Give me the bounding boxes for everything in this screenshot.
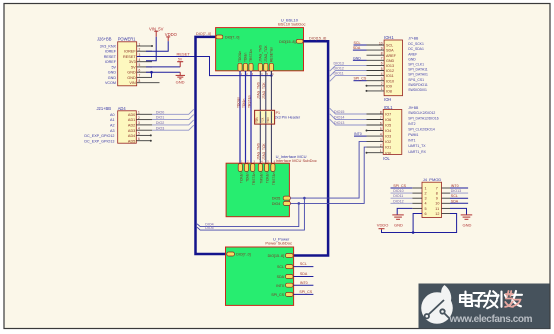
BSL10 right pin DIO[15..8]: [279, 39, 303, 44]
svg-text:6: 6: [381, 62, 383, 66]
svg-text:GND: GND: [176, 80, 185, 85]
ground symbol near POWER1: [176, 72, 185, 79]
svg-text:SDA: SDA: [353, 46, 361, 50]
svg-text:RESET&n: RESET&n: [270, 47, 274, 62]
svg-text:A1: A1: [110, 118, 115, 122]
svg-text:3: 3: [380, 138, 382, 142]
watermark elecfans: [419, 284, 550, 329]
svg-text:GND: GND: [353, 56, 361, 60]
connector J7 IOH: [384, 35, 419, 102]
svg-text:AD3: AD3: [128, 129, 135, 133]
svg-text:TRST&n: TRST&n: [247, 95, 251, 108]
svg-text:DIO12: DIO12: [334, 67, 344, 71]
junction rail pin6: [412, 231, 415, 234]
POWER1 pin names: [123, 50, 136, 86]
svg-text:GND: GND: [127, 76, 136, 80]
svg-text:2: 2: [380, 143, 382, 147]
svg-text:DIO14: DIO14: [334, 116, 344, 120]
power flag VDDO: [165, 32, 178, 41]
svg-text:DIO11: DIO11: [334, 72, 344, 76]
POWER1 pin stubs: [137, 45, 160, 83]
svg-text:DIO15: DIO15: [334, 110, 344, 114]
watermark red accent glyph part: [505, 291, 521, 307]
net labels DIO13 DIO12 DIO11: [334, 61, 344, 75]
ground symbol PMOD right: [461, 215, 473, 219]
wire VDDO to pin row IOREF: [146, 41, 168, 51]
svg-text:DIO[7..0]: DIO[7..0]: [236, 253, 250, 257]
svg-text:POWER1: POWER1: [118, 37, 136, 42]
svg-text:DIO[7..0]: DIO[7..0]: [225, 36, 239, 40]
svg-text:2: 2: [138, 116, 140, 120]
header P1 pin marks: [253, 117, 270, 123]
header P1 2x3 Pin Header: [255, 110, 301, 124]
svg-text:SPI_CLK1: SPI_CLK1: [408, 63, 424, 67]
svg-text:TCK: TCK: [261, 117, 265, 122]
svg-text:DIO4: DIO4: [272, 202, 280, 206]
svg-text:DIO3: DIO3: [156, 126, 164, 130]
svg-text:IO0: IO0: [385, 151, 391, 155]
svg-text:TDO: TDO: [266, 117, 270, 122]
svg-text:TRST&n: TRST&n: [249, 49, 253, 62]
svg-text:SCL: SCL: [451, 194, 458, 198]
bus DIO[7..0] left: [196, 37, 228, 254]
wire RESET long run: [137, 57, 272, 76]
svg-text:10: 10: [379, 41, 383, 45]
IOL right net labels: [408, 111, 439, 154]
svg-text:AD5: AD5: [128, 139, 135, 143]
Power right pin SDA: [277, 272, 314, 279]
junction DIO4: [298, 202, 301, 205]
svg-text:IO13: IO13: [386, 64, 394, 68]
svg-text:JTAG_TCK: JTAG_TCK: [262, 82, 266, 99]
AD4 left net labels: [84, 113, 114, 143]
svg-text:GND: GND: [386, 59, 395, 63]
svg-text:DC_SDA1: DC_SDA1: [408, 47, 424, 51]
wire SPI_CS PMOD: [391, 184, 413, 188]
svg-text:AD4: AD4: [118, 106, 127, 111]
svg-text:J21+BB: J21+BB: [97, 106, 112, 111]
svg-text:IOREF: IOREF: [124, 50, 136, 54]
junction GND rows: [150, 71, 153, 74]
svg-text:TCK&n: TCK&n: [266, 172, 270, 183]
svg-text:IO7: IO7: [385, 113, 391, 117]
svg-text:TRST&n: TRST&n: [272, 172, 276, 185]
svg-text:J26+BB: J26+BB: [97, 37, 112, 42]
wire DIO11 PMOD: [391, 194, 413, 198]
svg-text:GND: GND: [394, 222, 403, 227]
ground symbol PMOD left: [392, 215, 404, 219]
net labels TDO TDI TRST rotated: [236, 95, 251, 108]
wire DIO5 MCU to IOL: [290, 142, 366, 199]
net labels JTAG_TMS JTAG_TCK rotated upper: [257, 81, 267, 99]
svg-text:SDA: SDA: [300, 272, 308, 276]
svg-text:SDA: SDA: [277, 275, 285, 279]
net labels DIO0-DIO3: [156, 110, 164, 130]
svg-text:TDO&n: TDO&n: [238, 51, 242, 62]
svg-text:AD0: AD0: [128, 113, 135, 117]
wire SDA PMOD: [450, 199, 468, 203]
svg-text:SCL: SCL: [386, 44, 393, 48]
svg-text:IOREF: IOREF: [105, 50, 117, 54]
svg-text:IO12: IO12: [386, 69, 394, 73]
svg-text:DIO5: DIO5: [205, 226, 213, 230]
svg-text:4: 4: [381, 72, 383, 76]
svg-text:SPI_CS: SPI_CS: [354, 77, 367, 81]
svg-text:5: 5: [381, 67, 383, 71]
wire SCL PMOD: [450, 194, 468, 198]
fa: [484, 291, 499, 308]
bus DIO[15..8] right: [294, 41, 329, 255]
svg-text:GND: GND: [463, 222, 472, 227]
svg-text:4: 4: [380, 132, 382, 136]
svg-text:AREF: AREF: [408, 52, 417, 56]
svg-text:IO4: IO4: [385, 129, 391, 133]
AD4 pin stubs: [136, 114, 152, 140]
svg-text:INT0: INT0: [276, 284, 284, 288]
svg-text:SWDIODI01: SWDIODI01: [408, 88, 427, 92]
svg-text:3: 3: [425, 197, 427, 201]
svg-text:2x3 Pin Header: 2x3 Pin Header: [275, 115, 301, 119]
svg-text:5: 5: [139, 63, 141, 67]
svg-text:A2: A2: [110, 124, 115, 128]
svg-text:DC_SCK1: DC_SCK1: [408, 42, 424, 46]
svg-text:IO3: IO3: [385, 135, 391, 139]
svg-text:5: 5: [425, 207, 427, 211]
dian: [460, 292, 472, 307]
svg-text:11: 11: [435, 207, 439, 211]
svg-text:1: 1: [138, 111, 140, 115]
svg-text:SPI1_CS1: SPI1_CS1: [408, 78, 424, 82]
svg-text:3: 3: [138, 121, 140, 125]
wire DIO10 PMOD: [391, 189, 413, 193]
svg-text:DC_EXP_GPIO13: DC_EXP_GPIO13: [84, 139, 114, 143]
svg-text:SPI_CLK2/DIO14: SPI_CLK2/DIO14: [408, 128, 435, 132]
wire pin6 to rail: [413, 214, 422, 233]
svg-text:SPI_DATA01: SPI_DATA01: [408, 73, 428, 77]
AD4 pin numbers: [138, 111, 140, 141]
svg-text:DIO0: DIO0: [156, 110, 164, 114]
Power left pin DIO[7..0]: [227, 252, 251, 257]
svg-text:DIO[15..8]: DIO[15..8]: [279, 40, 295, 44]
svg-text:JTAG_TMS: JTAG_TMS: [259, 44, 263, 62]
svg-text:DIO13: DIO13: [451, 189, 461, 193]
wire INT0 stub IOL: [354, 132, 367, 136]
svg-text:IO10: IO10: [386, 79, 394, 83]
svg-text:AD2: AD2: [128, 124, 135, 128]
svg-text:9: 9: [381, 46, 383, 50]
svg-text:5V: 5V: [111, 65, 116, 69]
svg-text:UART1_TX: UART1_TX: [408, 144, 426, 148]
svg-text:7: 7: [381, 57, 383, 61]
wire SPI_CS stub IOH: [354, 77, 367, 81]
svg-text:P1: P1: [276, 111, 280, 115]
wire DIO4 tee to bus: [197, 203, 299, 226]
svg-text:SPI_DATA12/DIO16: SPI_DATA12/DIO16: [408, 117, 439, 121]
Power right pin SPI_CS: [271, 290, 313, 297]
connector J26 POWER1: [97, 37, 137, 86]
svg-text:UART1_RX: UART1_RX: [408, 150, 426, 154]
svg-text:TDI&n: TDI&n: [246, 172, 250, 182]
POWER1 left net labels: [100, 44, 117, 85]
svg-text:3V3_KNX: 3V3_KNX: [100, 44, 117, 48]
sheet symbol U_Power: [226, 237, 294, 306]
svg-text:4: 4: [425, 202, 427, 206]
svg-text:SPI_CS: SPI_CS: [271, 293, 284, 297]
connector J9 IOL: [383, 105, 419, 161]
svg-text:TCK&n: TCK&n: [239, 172, 243, 183]
svg-text:7: 7: [380, 116, 382, 120]
svg-text:TMS&n: TMS&n: [260, 172, 264, 183]
svg-text:JTAG_TMS: JTAG_TMS: [257, 142, 261, 160]
MCU right pins DIO5 DIO4: [272, 196, 290, 206]
svg-text:VDDO: VDDO: [377, 222, 389, 227]
svg-text:PWM1: PWM1: [408, 133, 418, 137]
svg-text:SDA: SDA: [386, 49, 394, 53]
wire VIN_5V to pin row 3V3: [146, 37, 156, 61]
svg-text:DIO11: DIO11: [393, 194, 403, 198]
svg-text:INT0: INT0: [354, 132, 362, 136]
svg-text:JTAG_TCK: JTAG_TCK: [264, 45, 268, 62]
wire DIO12 PMOD: [391, 199, 413, 203]
svg-text:GND: GND: [108, 76, 117, 80]
wire SCL stub IOH: [354, 41, 367, 45]
svg-text:1: 1: [139, 42, 141, 46]
svg-text:TDO&n: TDO&n: [236, 97, 240, 108]
power flag VIN_5V: [149, 26, 164, 36]
svg-text:J9+BB: J9+BB: [408, 106, 419, 110]
svg-text:123: 123: [253, 118, 257, 123]
svg-text:IO11: IO11: [386, 74, 394, 78]
svg-text:2: 2: [139, 48, 141, 52]
svg-text:TRST&n: TRST&n: [252, 172, 256, 185]
watermark chinese glyphs drawn as strokes: [460, 291, 522, 308]
IOH pin names: [386, 44, 397, 94]
svg-text:IO8: IO8: [386, 90, 392, 94]
power flag VDDO PMOD: [377, 222, 389, 230]
svg-text:2: 2: [381, 82, 383, 86]
svg-text:TDI&n: TDI&n: [244, 52, 248, 62]
connector J21 AD4: [97, 106, 137, 143]
svg-text:12: 12: [435, 212, 439, 216]
svg-text:DIO13: DIO13: [334, 121, 344, 125]
IOH pin numbers: [379, 41, 383, 91]
svg-text:IO2: IO2: [385, 140, 391, 144]
svg-text:DIO1: DIO1: [156, 116, 164, 120]
svg-text:BSL10 SubDoc: BSL10 SubDoc: [278, 21, 305, 26]
svg-text:IO1: IO1: [385, 146, 391, 150]
sheet symbol U_Interface MCU: [226, 154, 317, 217]
svg-text:SCL: SCL: [300, 262, 307, 266]
svg-text:5V: 5V: [178, 58, 183, 62]
wire pin5 to ground: [397, 208, 412, 215]
svg-text:IO9: IO9: [386, 84, 392, 88]
svg-text:DIO13: DIO13: [334, 61, 344, 65]
svg-text:6: 6: [139, 69, 141, 73]
PMOD pin numbers: [425, 186, 440, 216]
svg-text:A3: A3: [110, 129, 115, 133]
svg-text:IO6: IO6: [385, 118, 391, 122]
svg-text:GND: GND: [408, 57, 416, 61]
svg-text:2: 2: [425, 192, 427, 196]
svg-text:5V: 5V: [131, 65, 136, 69]
wire DIO5 tee to bus: [197, 198, 304, 230]
svg-text:INT2: INT2: [408, 122, 415, 126]
svg-text:www.elecfans.com: www.elecfans.com: [449, 314, 533, 325]
wire 5V row with power flag: [146, 58, 183, 67]
svg-text:GND: GND: [108, 71, 117, 75]
net labels JTAG_TMS JTAG_TCK rotated lower: [257, 142, 267, 160]
svg-text:RESET: RESET: [123, 55, 136, 59]
svg-text:1: 1: [380, 149, 382, 153]
svg-text:DC_EXP_GPIO12: DC_EXP_GPIO12: [84, 134, 114, 138]
svg-text:VCOM: VCOM: [105, 81, 116, 85]
IOH pin stubs: [367, 45, 385, 91]
svg-text:6: 6: [380, 121, 382, 125]
wire INT0 PMOD: [450, 184, 468, 188]
svg-text:VIN: VIN: [129, 81, 136, 85]
svg-text:INT1: INT1: [408, 139, 415, 143]
svg-text:VDDO: VDDO: [165, 32, 178, 37]
power rail VDDO bottom: [382, 214, 457, 233]
svg-text:TDI&n: TDI&n: [242, 98, 246, 108]
wires AD0-AD3 to bus: [152, 109, 194, 130]
svg-text:INT0: INT0: [451, 184, 459, 188]
svg-text:Interface MCU SubDoc: Interface MCU SubDoc: [276, 158, 317, 163]
svg-text:SDA: SDA: [451, 199, 459, 203]
svg-text:9: 9: [436, 197, 438, 201]
svg-text:1: 1: [425, 186, 427, 190]
wire pin11 to ground: [450, 208, 467, 215]
svg-text:4: 4: [139, 58, 141, 62]
net labels DIO15 DIO14 DIO13: [334, 110, 344, 125]
svg-text:SWDFDIO11: SWDFDIO11: [408, 83, 428, 87]
svg-text:6: 6: [138, 137, 140, 141]
svg-text:DIO5: DIO5: [272, 197, 280, 201]
BSL10 bottom pin numbers: [241, 73, 274, 76]
header P1 pass-through pins: [260, 111, 271, 123]
svg-text:DIO[15..8]: DIO[15..8]: [309, 37, 326, 41]
wire GND stub IOH: [353, 56, 367, 60]
Power right pin SCL: [277, 262, 313, 269]
PMOD left stubs: [412, 188, 422, 214]
svg-text:DIO[7..0]: DIO[7..0]: [196, 32, 211, 36]
svg-text:A0: A0: [110, 113, 115, 117]
svg-text:Power SubDoc: Power SubDoc: [265, 241, 292, 246]
svg-text:7: 7: [436, 186, 438, 190]
svg-text:IOH: IOH: [384, 97, 391, 102]
svg-text:7: 7: [139, 74, 141, 78]
svg-text:8: 8: [139, 79, 141, 83]
IOL pin stubs: [367, 114, 384, 153]
svg-text:DIO2: DIO2: [156, 121, 164, 125]
wires DIO13 DIO12 DIO11 to bus: [330, 65, 367, 81]
Power right pin INT0: [276, 281, 313, 288]
BSL10 left pin DIO[7..0]: [216, 35, 239, 40]
svg-text:10: 10: [435, 202, 439, 206]
svg-text:3: 3: [381, 77, 383, 81]
svg-text:SPI_DATA11: SPI_DATA11: [408, 68, 428, 72]
svg-text:4: 4: [138, 127, 140, 131]
svg-text:PMOD: PMOD: [429, 177, 441, 182]
zi: [473, 293, 487, 307]
svg-text:DIO[15..8]: DIO[15..8]: [268, 254, 284, 258]
connector J4 PMOD: [422, 177, 442, 217]
IOH right net labels: [408, 42, 428, 92]
wires DIO15 DIO14 DIO13 to bus: [330, 108, 367, 125]
svg-text:IO5: IO5: [385, 124, 391, 128]
svg-text:J7+BB: J7+BB: [408, 37, 419, 41]
AD4 pin names: [128, 113, 135, 143]
svg-text:IOREF: IOREF: [105, 60, 117, 64]
svg-text:SCL: SCL: [354, 41, 361, 45]
svg-text:5: 5: [138, 132, 140, 136]
svg-text:6: 6: [425, 212, 427, 216]
svg-text:8: 8: [436, 192, 438, 196]
svg-text:DIO12: DIO12: [393, 199, 403, 203]
svg-text:SPI_CS: SPI_CS: [299, 290, 312, 294]
svg-text:8: 8: [381, 52, 383, 56]
svg-text:SWDCLK2/DIO12: SWDCLK2/DIO12: [408, 111, 435, 115]
wire GND rows tie: [146, 72, 180, 77]
svg-text:JTAG_TCK: JTAG_TCK: [262, 143, 266, 160]
svg-text:1: 1: [381, 87, 383, 91]
BSL10 bottom pins: [238, 63, 274, 71]
wire SDA stub IOH: [353, 46, 367, 50]
POWER1 pin numbers: [139, 42, 141, 83]
svg-text:DIO10: DIO10: [393, 189, 403, 193]
shao fire radical: [497, 292, 507, 307]
svg-text:3V3: 3V3: [129, 60, 136, 64]
svg-text:RESET: RESET: [104, 55, 117, 59]
svg-text:IOH1: IOH1: [384, 35, 394, 40]
svg-text:IOL: IOL: [383, 156, 390, 161]
PMOD right stubs: [442, 188, 451, 214]
svg-text:5: 5: [380, 127, 382, 131]
BSL10 bottom pin names rotated: [238, 44, 273, 62]
svg-text:JTAG_TMS: JTAG_TMS: [257, 81, 261, 99]
wire JTAG group2 verticals: [260, 71, 271, 163]
wire JTAG group1 verticals: [240, 71, 251, 163]
you strokes: [509, 291, 522, 306]
MCU top pins: [238, 164, 275, 172]
wire DIO4 MCU to IOL: [290, 147, 366, 203]
svg-text:RESET: RESET: [177, 51, 191, 56]
svg-text:INT0: INT0: [300, 281, 308, 285]
svg-text:SCL: SCL: [277, 265, 284, 269]
svg-text:8: 8: [380, 110, 382, 114]
svg-text:AD1: AD1: [128, 118, 135, 122]
wire DIO13 PMOD: [450, 189, 468, 193]
Power right pin DIO[15..8]: [268, 254, 293, 259]
svg-text:AD4: AD4: [128, 134, 135, 138]
svg-text:SPI_CS: SPI_CS: [393, 184, 406, 188]
svg-text:AREF: AREF: [386, 54, 397, 58]
IOL pin numbers: [380, 110, 382, 153]
svg-text:GND: GND: [127, 71, 136, 75]
sheet symbol U_BSL10: [216, 18, 306, 71]
MCU top pin names rotated: [239, 172, 276, 185]
MCU top pin numbers: [241, 160, 276, 163]
IOL pin names: [385, 113, 391, 156]
junction DIO5: [303, 197, 306, 200]
